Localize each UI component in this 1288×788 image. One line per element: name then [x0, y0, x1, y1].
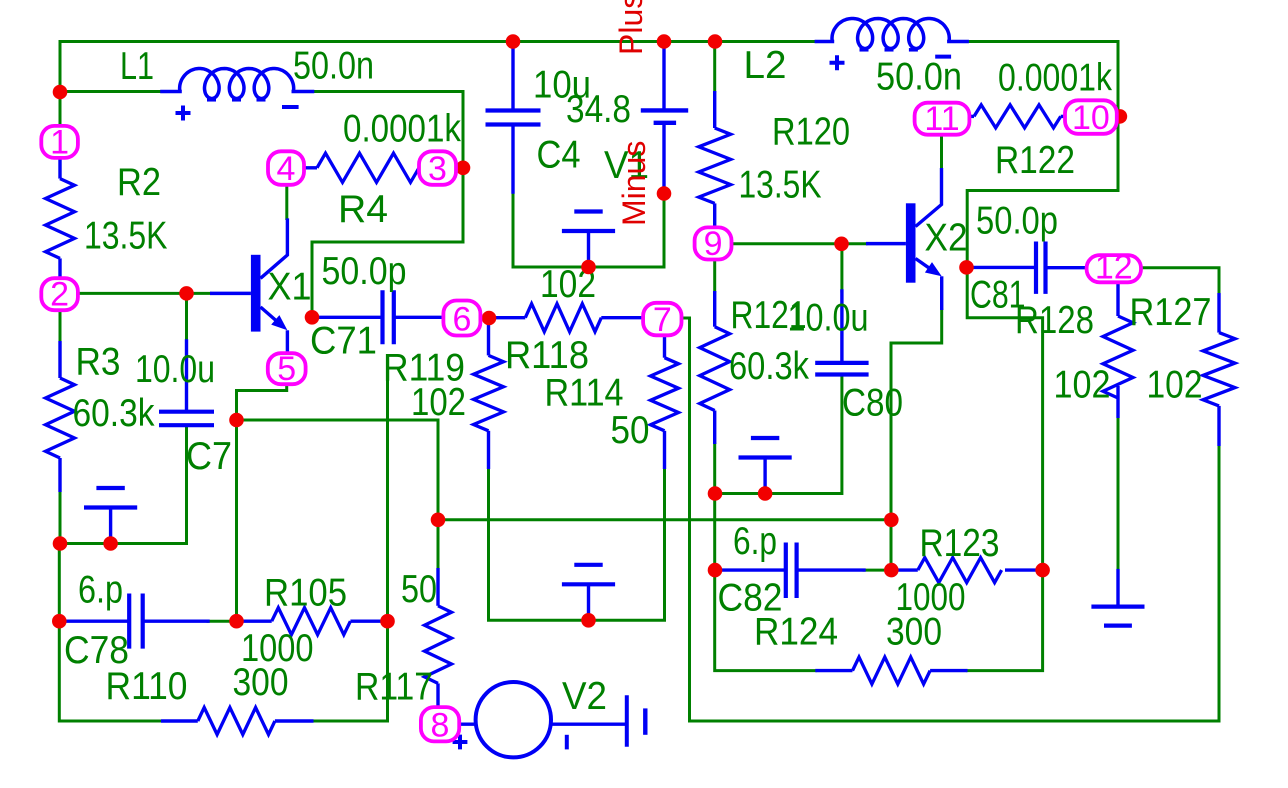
- wire C7 bottom: [185, 426, 188, 544]
- node 4: [268, 151, 304, 185]
- capacitor C80: [815, 363, 868, 375]
- svg-text:Minus: Minus: [616, 141, 652, 226]
- resistor R128: [1103, 282, 1133, 418]
- resistor R3: [46, 341, 75, 492]
- svg-text:Plus: Plus: [613, 0, 649, 55]
- capacitor C7 top lead: [185, 341, 188, 411]
- wire vertical C71-elbow to bottom: [386, 368, 389, 721]
- svg-text:50.0p: 50.0p: [322, 250, 407, 293]
- svg-text:0.0001k: 0.0001k: [343, 108, 461, 151]
- wire top rail: [60, 40, 816, 43]
- junction ground2 stem: [581, 613, 596, 628]
- wire C7 branch top: [185, 293, 188, 341]
- inductor L2 plus mark: [830, 55, 845, 70]
- svg-text:13.5K: 13.5K: [739, 164, 822, 207]
- svg-text:34.8: 34.8: [566, 88, 631, 131]
- svg-text:3: 3: [428, 150, 447, 188]
- svg-text:5: 5: [277, 350, 296, 388]
- wire C80 bottom row: [715, 375, 842, 494]
- resistor R120: [699, 91, 731, 226]
- node 9: [695, 227, 732, 259]
- source V1 top lead: [662, 42, 665, 109]
- wire C82 to R123: [864, 569, 891, 572]
- resistor R119: [474, 318, 504, 469]
- junction R120/L2 tap: [708, 34, 723, 49]
- resistor R4: [304, 153, 419, 182]
- svg-text:300: 300: [233, 661, 289, 704]
- capacitor C82 left lead: [715, 568, 784, 571]
- wire C4 branch lower: [513, 192, 664, 267]
- capacitor C78 plates: [129, 594, 143, 649]
- wire node12 right to R127: [1140, 268, 1219, 293]
- svg-text:R117: R117: [355, 666, 433, 709]
- junction X2 base / C80: [834, 237, 849, 252]
- svg-text:R110: R110: [106, 665, 188, 708]
- svg-text:C4: C4: [537, 133, 581, 176]
- capacitor C82 plates: [786, 543, 797, 599]
- inductor L2 minus mark: [935, 55, 951, 59]
- capacitor C7: [159, 412, 214, 426]
- node 8: [421, 707, 459, 741]
- junction X1 base / C7: [179, 286, 194, 301]
- svg-text:C71: C71: [310, 320, 377, 363]
- wire long mid rail: [438, 518, 891, 521]
- capacitor C71: [383, 290, 394, 344]
- svg-text:X1: X1: [268, 266, 312, 309]
- svg-text:1: 1: [50, 123, 69, 161]
- junction top-left L1 tap: [53, 85, 68, 100]
- junction C78 left: [52, 614, 67, 629]
- svg-text:6.p: 6.p: [733, 520, 777, 563]
- junction long rail right: [884, 513, 899, 528]
- wire left rail to C78: [58, 544, 61, 622]
- svg-text:R124: R124: [754, 611, 838, 654]
- wire L1 out to node3 and C71: [312, 92, 463, 318]
- svg-text:R2: R2: [117, 161, 161, 204]
- junction node3 right: [456, 161, 471, 176]
- capacitor C81: [1036, 242, 1046, 294]
- inductor L1 right lead: [293, 90, 312, 94]
- ground below R114: [562, 565, 615, 621]
- capacitor C4: [486, 111, 541, 125]
- capacitor C71 left lead: [312, 316, 381, 319]
- junction ground1 stem: [103, 536, 118, 551]
- transistor X2: [866, 168, 942, 310]
- wire x236 vertical to C78 row: [235, 420, 238, 621]
- svg-text:6.p: 6.p: [78, 569, 123, 612]
- resistor R124: [815, 657, 967, 684]
- wire node4 stem: [285, 184, 288, 219]
- capacitor C82 right lead: [798, 568, 864, 571]
- node 1: [41, 126, 78, 158]
- svg-text:X2: X2: [925, 217, 968, 260]
- wire top rail right / node10-emitter chain: [967, 42, 1118, 571]
- node 10: [1065, 100, 1117, 134]
- inductor L2 right lead: [949, 40, 967, 44]
- svg-text:300: 300: [886, 611, 942, 654]
- capacitor C78 left lead: [59, 620, 127, 623]
- svg-text:L2: L2: [744, 44, 787, 87]
- junction C4 tap: [506, 34, 521, 49]
- junction X2 net / C81: [959, 260, 974, 275]
- node 12: [1087, 255, 1141, 282]
- wire node11 stem: [940, 133, 943, 169]
- node 5: [268, 353, 306, 384]
- svg-text:C80: C80: [842, 382, 903, 425]
- svg-text:102: 102: [411, 381, 466, 424]
- svg-text:R128: R128: [1015, 299, 1094, 342]
- resistor R127: [1203, 293, 1235, 446]
- junction node5 net corner: [229, 413, 244, 428]
- wire R124 bottom: [715, 570, 816, 671]
- svg-text:R3: R3: [76, 341, 121, 384]
- junction C78/R105: [229, 614, 244, 629]
- capacitor C80 top lead: [840, 291, 843, 362]
- svg-text:4: 4: [277, 150, 296, 188]
- ground near C80: [739, 438, 792, 494]
- wire R121 chain down: [713, 259, 716, 291]
- svg-text:8: 8: [431, 707, 450, 745]
- svg-text:6: 6: [452, 301, 471, 339]
- wire R121 bottom to C82: [713, 444, 716, 570]
- inductor L1 plus mark: [176, 106, 191, 121]
- resistor R122: [969, 105, 1065, 128]
- wire X2 emitter chain: [891, 310, 942, 570]
- junction V1 tap: [657, 34, 672, 49]
- junction C82 left: [708, 563, 723, 578]
- svg-text:102: 102: [1147, 364, 1203, 407]
- wire C78 down to bottom: [59, 621, 161, 721]
- node 2: [41, 278, 78, 310]
- svg-text:60.3k: 60.3k: [73, 392, 155, 435]
- node 7: [643, 303, 681, 336]
- wire y420 horizontal: [237, 419, 439, 422]
- inductor L2: [832, 19, 949, 49]
- junction C71 left: [305, 310, 320, 325]
- svg-text:10.0u: 10.0u: [788, 297, 869, 340]
- resistor R105: [237, 608, 388, 635]
- capacitor C78 right lead: [145, 620, 209, 623]
- capacitor C4 top lead: [511, 42, 514, 111]
- svg-text:50.0n: 50.0n: [876, 56, 962, 99]
- svg-text:50.0p: 50.0p: [976, 200, 1058, 243]
- svg-text:R123: R123: [920, 522, 1000, 565]
- wire R128 lower: [1117, 418, 1120, 569]
- wire left rail upper: [59, 42, 62, 127]
- svg-text:R4: R4: [338, 188, 388, 231]
- wire bottom left segment right: [314, 720, 388, 723]
- junction C82/R123: [884, 563, 899, 578]
- svg-text:R127: R127: [1130, 291, 1212, 334]
- ground bottom right: [1091, 569, 1144, 626]
- svg-text:L1: L1: [120, 45, 154, 88]
- resistor R110: [161, 708, 314, 735]
- resistor R114: [651, 330, 679, 469]
- wire R124 right: [968, 570, 1043, 671]
- wire C78 to R105 junction: [208, 620, 237, 623]
- ground left of C7: [84, 488, 137, 544]
- junction ground V1 net: [581, 260, 596, 275]
- wire R117 top: [437, 420, 440, 568]
- svg-text:9: 9: [704, 225, 723, 263]
- resistor R2: [46, 158, 75, 278]
- inductor L2 left lead: [816, 40, 832, 44]
- junction ground4 stem: [758, 486, 773, 501]
- capacitor C4 bottom lead: [511, 125, 514, 192]
- wire node5 stem to y420 node: [237, 383, 287, 420]
- wire node2 to X1 base: [77, 292, 210, 295]
- svg-text:2: 2: [50, 276, 69, 314]
- svg-text:R120: R120: [772, 111, 850, 154]
- svg-text:60.3k: 60.3k: [729, 345, 809, 388]
- node 3: [419, 151, 456, 185]
- inductor L1 minus mark: [282, 105, 299, 109]
- source V1 battery plates: [641, 110, 688, 122]
- wire R119/R114 bottom box: [489, 469, 665, 620]
- resistor R118: [490, 304, 644, 332]
- wire C80 branch top: [840, 244, 843, 291]
- wire node9 to X2 base: [731, 242, 866, 245]
- svg-text:0.0001k: 0.0001k: [998, 57, 1112, 100]
- transistor X1: [210, 218, 287, 353]
- inductor L1 left lead: [162, 90, 180, 94]
- wire node2-R3: [59, 310, 62, 341]
- svg-text:V2: V2: [562, 675, 607, 718]
- junction node6 right / R119: [482, 311, 497, 326]
- svg-text:13.5K: 13.5K: [84, 215, 168, 258]
- resistor R117: [425, 568, 452, 706]
- ground near V1: [562, 212, 615, 268]
- resistor R121: [700, 291, 730, 444]
- svg-text:12: 12: [1095, 249, 1133, 287]
- svg-text:102: 102: [1054, 364, 1111, 407]
- inductor L1: [180, 69, 294, 99]
- capacitor C81 right lead: [1048, 266, 1090, 269]
- svg-text:R105: R105: [264, 572, 347, 615]
- wire L1 row left: [60, 90, 162, 93]
- junction R117 / long rail: [431, 513, 446, 528]
- node 11: [915, 103, 970, 135]
- source V1 bottom lead: [662, 125, 665, 194]
- resistor R123: [891, 558, 1042, 583]
- wire node1-R2: [59, 158, 62, 160]
- svg-text:50: 50: [611, 409, 650, 452]
- svg-text:10.0u: 10.0u: [135, 348, 215, 391]
- wire node7 right down to bottom right: [682, 318, 1219, 721]
- junction R3 bottom: [53, 536, 68, 551]
- capacitor C71 right lead: [395, 316, 443, 319]
- node 6: [443, 301, 480, 336]
- junction V1 bottom: [657, 186, 672, 201]
- svg-text:11: 11: [924, 100, 959, 138]
- svg-text:10: 10: [1072, 99, 1110, 137]
- svg-text:50: 50: [401, 568, 437, 611]
- junction R123 right: [1035, 563, 1050, 578]
- svg-text:R122: R122: [995, 139, 1075, 182]
- wire R120 top: [713, 42, 716, 92]
- capacitor C81 left lead: [967, 266, 1034, 269]
- junction R121 / C80 net: [708, 486, 723, 501]
- junction R105 right: [380, 614, 395, 629]
- wire R3 bottom: [60, 492, 187, 544]
- junction node10 right: [1113, 109, 1128, 124]
- source V2: [453, 682, 646, 757]
- svg-text:7: 7: [653, 301, 672, 339]
- svg-text:50.0n: 50.0n: [293, 45, 374, 88]
- svg-text:C7: C7: [186, 435, 232, 478]
